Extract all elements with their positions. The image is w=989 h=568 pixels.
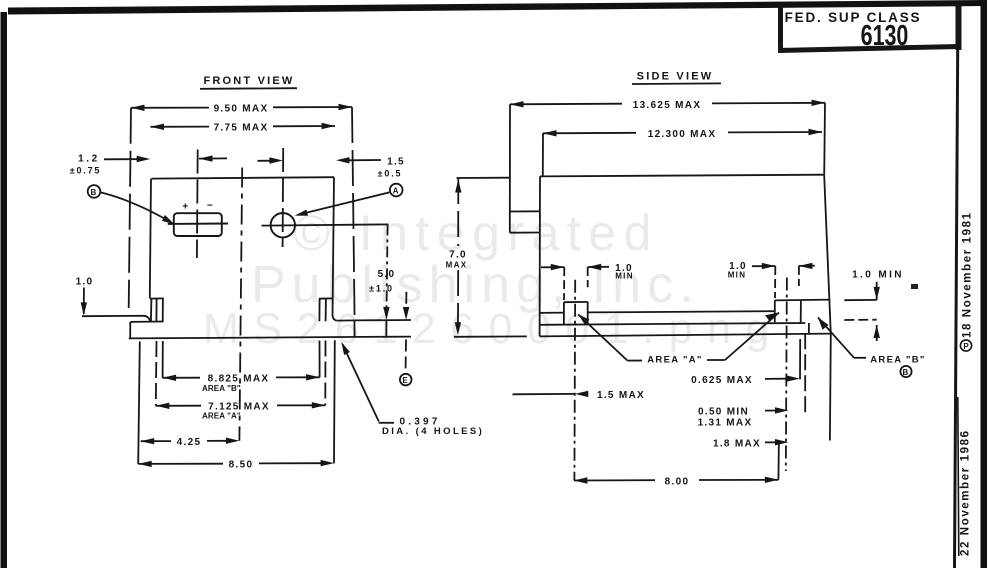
4.25 arrows: [141, 438, 155, 444]
dim 8.825 lines: [163, 377, 200, 379]
page border left bar: [1, 12, 8, 568]
circled note A right: [390, 184, 403, 197]
middle rib right vertical: [800, 301, 802, 323]
svg-text:8.00: 8.00: [665, 477, 690, 488]
left 1.0 MIN lines: [541, 266, 564, 268]
x406 arrow down: [403, 307, 409, 320]
pad lower vertical to 0.50/1.31 dim: [804, 333, 806, 412]
package centerline dashed: [240, 168, 243, 431]
front view arrowheads: [81, 104, 410, 467]
leader arrow into terminal circle: [295, 210, 308, 216]
svg-text:SIDE VIEW: SIDE VIEW: [637, 71, 714, 83]
svg-text:B: B: [90, 188, 97, 197]
left rib top: [564, 301, 588, 303]
right 1.0 MIN lower reference: [844, 319, 876, 321]
svg-text:4.25: 4.25: [177, 437, 202, 448]
title block right edge: [956, 2, 962, 50]
leader from circled A to terminal circle: [298, 192, 389, 214]
package right edge: [333, 177, 335, 315]
circled note below AREA B: [900, 366, 911, 377]
dim 13.625/12.300 right extension: [823, 103, 826, 176]
stray mark: [911, 284, 918, 289]
side view title underline: [632, 82, 721, 85]
0.625 arrow: [786, 375, 800, 381]
svg-text:AREA "B": AREA "B": [870, 355, 925, 366]
AREA A right leader: [707, 359, 725, 361]
svg-text:1.8 MAX: 1.8 MAX: [713, 439, 761, 450]
svg-text:1.5: 1.5: [387, 157, 405, 168]
body right ext down to 1.8 dim: [829, 334, 832, 441]
svg-text:18 November 1981: 18 November 1981: [962, 211, 974, 338]
AREA B leader arrowhead: [818, 318, 829, 330]
7.0 bottom extension line: [454, 335, 527, 337]
0.397 leader diagonal: [343, 344, 379, 421]
right rib top: [319, 297, 333, 299]
circled note E: [400, 374, 412, 386]
dim vertical x=406 upper: [405, 292, 407, 313]
svg-text:8.825 MAX: 8.825 MAX: [208, 374, 270, 385]
1.5 MAX arrow: [575, 391, 589, 397]
left lip curve: [144, 316, 150, 322]
front view title underline: [200, 87, 297, 90]
8.825 arrows: [163, 375, 177, 381]
body right edge: [824, 176, 831, 334]
battery mid line: [168, 223, 228, 225]
svg-text:1.2: 1.2: [78, 154, 100, 165]
notch top: [510, 210, 540, 212]
dim 12.300 left extension: [542, 133, 544, 176]
svg-text:1.5 MAX: 1.5 MAX: [597, 390, 645, 401]
title block bottom edge: [778, 47, 960, 51]
svg-text:1.0: 1.0: [76, 277, 94, 288]
5.0 arrow down at flange: [383, 307, 389, 320]
front view dimension texts: [70, 103, 484, 470]
1.8 arrow: [775, 439, 789, 445]
left lip top: [82, 315, 144, 317]
middle 1.0 MIN lines: [752, 265, 775, 267]
page border top bar: [8, 0, 987, 15]
svg-text:±0.5: ±0.5: [378, 169, 403, 179]
svg-text:AREA "A": AREA "A": [202, 412, 241, 421]
svg-text:±0.75: ±0.75: [70, 166, 101, 176]
underline for 22 November 1986: [958, 397, 959, 556]
svg-text:8.50: 8.50: [229, 460, 254, 471]
svg-text:P: P: [963, 342, 969, 351]
1.8 MAX dim line: [765, 441, 778, 443]
svg-text:6130: 6130: [861, 20, 909, 52]
dim 4.25 lines: [141, 440, 171, 442]
date strip left rule: [955, 2, 959, 568]
dim 13.625 MAX lines: [510, 103, 622, 106]
dim 7.75 MAX line: [151, 126, 210, 128]
dim 7.125 lines: [156, 405, 201, 407]
right 1.0 MIN upper reference: [844, 299, 877, 301]
flange bottom: [129, 337, 411, 339]
0.397 leader arrowhead: [341, 342, 350, 355]
AREA A leader arrowheads: [578, 315, 589, 325]
0.50/1.31 arrow: [775, 407, 789, 413]
svg-text:DIA. (4 HOLES): DIA. (4 HOLES): [382, 426, 484, 437]
right ledge top: [337, 319, 354, 321]
side view dimension texts: [446, 100, 926, 488]
svg-text:22 November 1986: 22 November 1986: [960, 429, 972, 556]
middle hole centerline: [786, 278, 787, 472]
package left edge: [150, 179, 151, 298]
left flange end vertical: [129, 322, 131, 338]
svg-text:© Integrated: © Integrated: [293, 205, 659, 261]
7.0 dim vertical upper: [457, 178, 459, 246]
body left edge: [539, 176, 541, 336]
terminal horizontal centerline: [262, 224, 389, 225]
dim 1.0 left vertical: [83, 288, 85, 315]
dim 12.300 MAX lines: [543, 132, 636, 135]
leader from circled B to battery: [100, 192, 171, 222]
svg-text:±1.0: ±1.0: [369, 284, 394, 294]
right pin centerline: [282, 148, 285, 247]
middle 1.0 MIN arrows: [762, 263, 776, 269]
terminal circle: [271, 213, 295, 237]
svg-text:MAX: MAX: [446, 261, 468, 270]
middle 1.0 MIN extensions: [774, 266, 776, 298]
left flange step top: [130, 321, 163, 323]
svg-text:AREA "A": AREA "A": [647, 355, 702, 366]
notch bottom: [510, 232, 540, 234]
8.00 arrows: [574, 477, 588, 483]
7.0 arrows: [455, 180, 461, 193]
plate top between ribs: [588, 311, 775, 312]
pad step vertical: [808, 323, 810, 333]
svg-text:1.0 MIN: 1.0 MIN: [852, 270, 904, 281]
8.50 arrows: [138, 461, 152, 467]
dim 1.2 dimension lines: [104, 158, 139, 160]
flange bottom: [540, 334, 831, 337]
dim 9.50 MAX line: [131, 107, 209, 109]
1.5 arrows: [269, 157, 283, 163]
battery terminal block: [174, 213, 222, 236]
right 1.0 MIN arrows: [874, 287, 880, 300]
plate bottom (flange top): [540, 323, 806, 325]
1.2 arrows: [137, 156, 151, 162]
7.75 arrows: [151, 124, 165, 130]
svg-text:+: +: [182, 202, 189, 213]
0.397 leader tail: [379, 422, 394, 424]
svg-text:FRONT VIEW: FRONT VIEW: [203, 75, 294, 87]
page border right bar: [981, 0, 988, 568]
left rib verticals: [563, 302, 565, 325]
5.0 dim line stub through flange: [385, 320, 387, 337]
svg-text:5.0: 5.0: [378, 269, 396, 280]
middle rib left vertical: [774, 300, 776, 322]
package right edge curve into ledge: [333, 315, 338, 321]
date strip note (P) 18 November 1981: [962, 211, 974, 338]
left rib verticals: [150, 299, 153, 322]
bottom dim extension verticals: [162, 341, 164, 378]
12.300 arrows: [543, 130, 557, 136]
0.625 right extension below flange: [799, 339, 801, 379]
circled note B left: [88, 185, 101, 198]
svg-text:0.625 MAX: 0.625 MAX: [691, 375, 753, 386]
left pin centerline: [196, 150, 199, 259]
9.50 arrows: [131, 105, 145, 111]
svg-text:13.625 MAX: 13.625 MAX: [633, 100, 702, 111]
1.0 arrow down: [81, 302, 87, 315]
13.625 arrows: [510, 101, 524, 107]
1.5 MAX dim line: [513, 393, 575, 395]
dim 1.5 dimension lines: [258, 160, 273, 162]
svg-text:AREA "B": AREA "B": [202, 384, 241, 393]
date strip note 22 November 1986: [960, 429, 972, 556]
svg-text:12.300 MAX: 12.300 MAX: [648, 129, 717, 140]
AREA A left leader: [578, 315, 627, 361]
leader arrow into battery: [162, 215, 175, 225]
dim 9.50 right extension: [352, 107, 355, 321]
svg-text:7.0: 7.0: [449, 250, 467, 261]
left rib top: [150, 297, 164, 299]
7.125 arrows: [156, 403, 170, 409]
side view arrowheads: [455, 100, 880, 484]
right rib verticals: [318, 299, 320, 322]
svg-text:A: A: [393, 187, 400, 196]
package top edge: [152, 177, 335, 178]
dim vertical x=406 lower: [405, 340, 407, 369]
body top edge: [540, 175, 824, 177]
left hole centerline: [573, 280, 576, 481]
left 1.0 MIN extensions: [563, 267, 565, 300]
svg-text:1.31 MAX: 1.31 MAX: [698, 418, 753, 429]
dim 13.625 left extension + notch left edge: [509, 104, 511, 232]
right ledge top: [775, 299, 831, 302]
dim 5.0 vertical (x=387): [387, 224, 388, 312]
svg-text:B: B: [902, 368, 909, 377]
AREA B leader: [818, 318, 854, 358]
svg-text:MIN: MIN: [615, 271, 634, 280]
right ledge end vertical: [353, 320, 355, 337]
svg-text:E: E: [402, 376, 409, 385]
left ledge top: [540, 312, 565, 314]
dim 9.50 left extension: [129, 108, 131, 308]
8.00 right corner vertical: [777, 441, 780, 480]
7.0 dim vertical lower: [457, 270, 459, 337]
title block left edge: [778, 6, 783, 52]
svg-text:7.75 MAX: 7.75 MAX: [214, 122, 269, 133]
svg-text:9.50 MAX: 9.50 MAX: [214, 103, 269, 114]
svg-text:−: −: [207, 201, 214, 212]
8.00 dim lines: [574, 479, 655, 481]
flange top extension line to right: [355, 319, 411, 321]
dim 8.50 lines: [138, 463, 223, 465]
0.625 MAX dim line: [765, 378, 788, 380]
0.50/1.31 dim line: [765, 410, 778, 412]
circled P: [960, 340, 971, 351]
dim 4.25 centerline tick: [238, 427, 240, 441]
svg-text:MIN: MIN: [728, 270, 747, 279]
7.0 top extension line: [457, 177, 510, 179]
left 1.0 MIN arrows: [551, 264, 565, 270]
svg-text:0.50 MIN: 0.50 MIN: [698, 407, 749, 418]
